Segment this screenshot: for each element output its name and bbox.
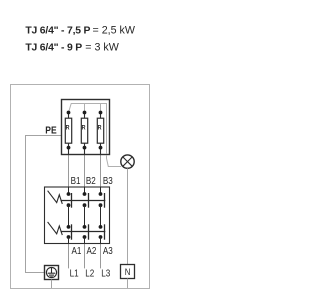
protective earth terminal (45, 266, 59, 280)
svg-text:B2: B2 (86, 175, 96, 186)
enclosure frame (11, 85, 150, 289)
svg-text:R: R (98, 125, 102, 132)
svg-text:A1: A1 (72, 245, 82, 256)
svg-text:A3: A3 (103, 245, 113, 256)
wire: lamp to terminal N (127, 168, 129, 264)
heating element R2 (81, 111, 87, 155)
svg-text:TJ 6/4" - 7,5 P: TJ 6/4" - 7,5 P (25, 25, 90, 36)
thermostat switch box (45, 187, 110, 244)
heater enclosure box (62, 100, 110, 155)
wire L3 column (heater to thermostat) (100, 150, 102, 187)
terminal N box (121, 265, 135, 279)
contact bridge bar row 1 (61, 200, 106, 202)
wire L2 column (thermostat to supply) (84, 244, 86, 269)
terminal label A1 (72, 245, 82, 256)
svg-text:R: R (82, 125, 86, 132)
wire segments between contact rows (69, 205, 101, 227)
terminal label B2 (86, 175, 96, 186)
contact row 1 pole 3 (99, 187, 105, 208)
svg-text:B1: B1 (71, 175, 81, 186)
wire PE from label to heater box and down to earth terminal (26, 136, 62, 273)
wire: earth terminal to frame bottom (51, 280, 53, 289)
value label: model/power line 2 (25, 41, 119, 53)
terminal label L2 (85, 268, 94, 279)
svg-text:L1: L1 (70, 268, 79, 279)
thermal actuator row 2 (48, 222, 63, 235)
contact bridge bar row 2 (61, 231, 106, 233)
svg-text:A2: A2 (87, 245, 97, 256)
svg-text:L3: L3 (101, 268, 110, 279)
svg-text:PE: PE (45, 125, 56, 137)
svg-text:L2: L2 (85, 268, 94, 279)
terminal label A2 (87, 245, 97, 256)
wire: star point bus joining element tops (69, 104, 107, 155)
wire L1 column (thermostat to supply) (68, 244, 70, 269)
svg-text:= 2,5 kW: = 2,5 kW (93, 24, 136, 36)
value label: model/power line 1 (25, 24, 135, 36)
svg-text:= 3 kW: = 3 kW (85, 41, 119, 53)
contact row 1 pole 2 (83, 187, 89, 208)
svg-text:TJ 6/4" - 9 P: TJ 6/4" - 9 P (25, 42, 82, 53)
contact row 2 pole 3 (99, 224, 105, 243)
svg-text:N: N (125, 266, 131, 277)
heating element R3 (97, 111, 103, 155)
contact row 1 pole 1 (67, 187, 72, 208)
svg-text:B3: B3 (103, 175, 113, 186)
contact row 2 pole 2 (83, 224, 89, 243)
thermal actuator row 1 (48, 191, 63, 204)
wire L1 column (heater to thermostat) (68, 150, 70, 187)
wire L2 column (heater to thermostat) (84, 150, 86, 187)
heating element R1 (65, 111, 71, 155)
wire: terminal N to frame bottom (127, 279, 129, 289)
svg-text:R: R (66, 125, 70, 132)
terminal label L3 (101, 268, 110, 279)
net label PE (45, 125, 56, 137)
wire L3 column (thermostat to supply) (100, 244, 102, 269)
indicator lamp (121, 155, 134, 168)
terminal label A3 (103, 245, 113, 256)
terminal label B1 (71, 175, 81, 186)
terminal label B3 (103, 175, 113, 186)
contact row 2 pole 1 (67, 224, 72, 243)
wire: star point to indicator lamp (107, 155, 122, 167)
terminal label L1 (70, 268, 79, 279)
